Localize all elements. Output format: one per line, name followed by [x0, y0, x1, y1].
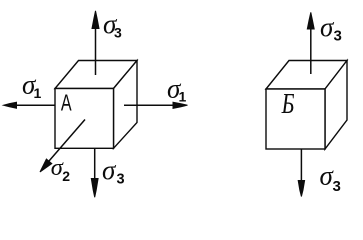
cube B right face — [325, 61, 347, 150]
svg-text:3: 3 — [117, 172, 125, 188]
cube A top face — [55, 61, 137, 89]
svg-text:σ: σ — [102, 155, 117, 185]
svg-text:Б: Б — [281, 87, 295, 120]
cube B front face — [266, 89, 325, 149]
svg-text:3: 3 — [114, 25, 122, 41]
svg-text:1: 1 — [179, 89, 187, 105]
svg-text:2: 2 — [62, 168, 70, 184]
arrow sigma3 up (cube A) — [92, 11, 99, 75]
svg-text:А: А — [61, 91, 72, 116]
cube A right face — [114, 61, 138, 149]
arrow sigma3 up (cube B) — [307, 12, 314, 74]
arrow sigma1 left (cube A) — [4, 102, 56, 108]
svg-text:3: 3 — [334, 28, 342, 45]
svg-text:1: 1 — [34, 85, 42, 101]
arrow sigma3 down (cube B) — [298, 149, 304, 197]
arrow sigma3 down (cube A) — [91, 148, 98, 197]
arrow sigma2 diagonal (cube A) — [40, 120, 85, 173]
cube A front face — [55, 89, 114, 149]
svg-text:3: 3 — [333, 178, 341, 195]
arrow sigma1 right (cube A) — [124, 102, 188, 108]
cube B top face — [266, 61, 347, 90]
